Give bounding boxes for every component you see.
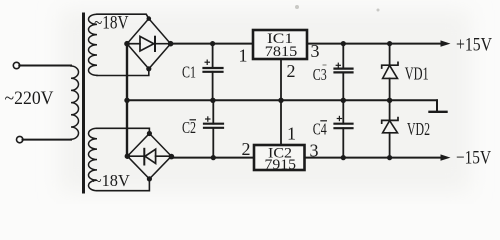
svg-text:7815: 7815: [265, 44, 298, 60]
svg-text:VD1: VD1: [405, 64, 429, 84]
svg-text:3: 3: [310, 141, 319, 161]
svg-text:C4: C4: [313, 120, 327, 139]
svg-text:+15V: +15V: [456, 35, 492, 56]
svg-text:2: 2: [242, 139, 251, 159]
svg-text:1: 1: [239, 46, 248, 66]
svg-text:C2: C2: [182, 118, 196, 137]
svg-text:~220V: ~220V: [5, 88, 54, 109]
svg-text:2: 2: [287, 61, 296, 81]
svg-text:VD2: VD2: [407, 119, 430, 139]
svg-text:~18V: ~18V: [93, 171, 131, 190]
svg-text:C1: C1: [182, 63, 196, 82]
svg-text:−15V: −15V: [456, 148, 491, 169]
svg-text:7915: 7915: [265, 157, 297, 173]
svg-text:3: 3: [311, 41, 320, 61]
svg-text:~18V: ~18V: [94, 14, 129, 34]
svg-text:1: 1: [287, 124, 296, 144]
svg-text:C3: C3: [313, 65, 327, 84]
